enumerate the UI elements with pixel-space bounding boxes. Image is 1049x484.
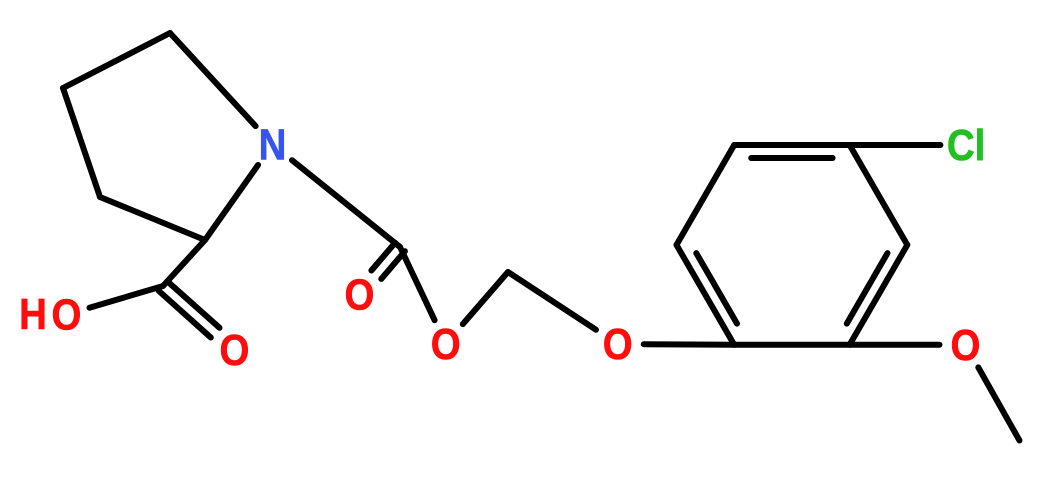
svg-text:O: O <box>603 320 633 369</box>
svg-text:O: O <box>52 291 82 340</box>
svg-text:O: O <box>345 271 375 320</box>
svg-text:O: O <box>220 326 250 375</box>
svg-text:H: H <box>19 290 47 339</box>
svg-text:N: N <box>259 121 287 170</box>
svg-text:l: l <box>975 121 986 170</box>
svg-text:C: C <box>947 121 975 170</box>
svg-text:O: O <box>431 320 461 369</box>
svg-text:O: O <box>951 321 981 370</box>
